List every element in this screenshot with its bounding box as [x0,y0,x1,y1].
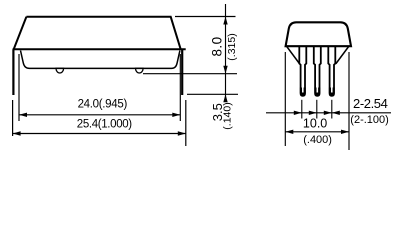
extension line lead tip level [187,93,238,95]
svg-text:(.400): (.400) [303,134,332,146]
lead right [181,49,183,95]
svg-text:10.0: 10.0 [303,117,327,131]
end view: left flare [287,46,300,64]
end view: cover rounded body [286,22,351,46]
extension line 24.0 right [179,54,181,121]
vertical dimension line 8.0 / 3.5 [225,4,227,102]
svg-text:24.0(.945): 24.0(.945) [78,99,128,111]
lead left [12,49,14,95]
pin tip [314,88,320,96]
dim line 24.0 [19,114,180,116]
extension line 25.4 right [185,100,187,146]
pin tip [329,88,335,96]
svg-text:2-2.54: 2-2.54 [353,96,388,111]
pin 2 (end view) [314,46,321,96]
dim line 25.4 [13,133,186,135]
extension line 24.0 left [18,54,20,121]
pin 1 (end view) [299,46,306,96]
extension line 10.0 left [284,52,286,146]
pin tick 1 [301,100,303,119]
extension line top (body top) [175,16,236,18]
svg-text:25.4(1.000): 25.4(1.000) [77,119,132,131]
svg-text:(2-.100): (2-.100) [350,114,389,126]
svg-text:(.315): (.315) [226,33,238,60]
dim line 10.0 [285,131,349,133]
standoff bump left [56,68,64,73]
side view: base bottom with end fillets [21,51,180,69]
leader from right bump (seating plane) [143,73,237,75]
end view: right flare [336,46,349,64]
pitch dim line 2-2.54 [266,112,391,114]
extension line 25.4 left [12,100,14,136]
standoff bump right [136,68,144,73]
side view: cover outline [14,17,181,50]
pin tick 3 [331,100,333,119]
svg-text:8.0: 8.0 [210,37,225,57]
pin tip [300,88,306,96]
relay package dimension drawing [0,0,402,155]
side view: cover bottom edge [13,48,186,50]
extension line 10.0 right [348,52,350,150]
pin 3 (end view) [328,46,335,96]
svg-text:(.140): (.140) [221,102,233,129]
pin tick 2 [316,100,318,119]
